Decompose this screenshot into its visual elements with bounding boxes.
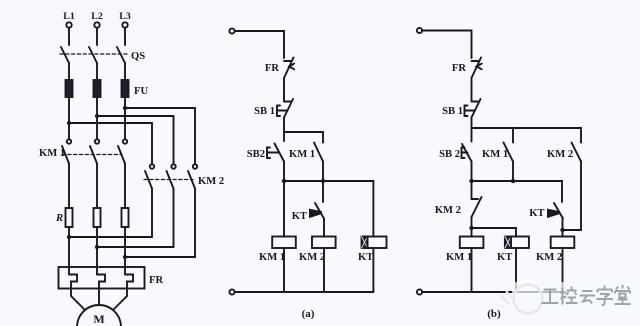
bypass row to phase3 xyxy=(125,256,195,258)
svg-text:KM 1: KM 1 xyxy=(289,149,315,160)
wire KM2 coil to rail (a) xyxy=(323,248,325,292)
svg-text:KT: KT xyxy=(358,252,373,263)
char 堂 xyxy=(615,285,631,304)
wire branch KM1 aux (b) xyxy=(512,128,514,143)
KM1 linkage dashed line xyxy=(62,154,122,156)
svg-text:KM 1: KM 1 xyxy=(482,149,508,160)
watermark logo xyxy=(501,285,543,314)
coil KT with delay element (a) xyxy=(362,237,387,249)
svg-text:KM 1: KM 1 xyxy=(446,252,472,263)
pushbutton SB1 NC (b) xyxy=(465,99,481,118)
KM2 linkage dashed line xyxy=(144,179,193,181)
branch wire to KM1 aux (a) xyxy=(284,132,323,143)
wire KM2 pole2 bypass down xyxy=(173,189,175,248)
wire FR to motor middle xyxy=(98,288,100,305)
branch row L2 to KM2 middle pole xyxy=(97,116,174,164)
wire KT contact down (b) xyxy=(562,219,564,237)
svg-text:KM 1: KM 1 xyxy=(39,148,65,159)
junction dot (b) node C xyxy=(469,226,473,230)
wire FR to SB1 (a) xyxy=(283,78,285,101)
wire L2 to QS xyxy=(96,28,98,45)
switch QS pole 3 blade xyxy=(117,47,125,63)
wire L1 to QS xyxy=(68,28,70,45)
svg-text:L1: L1 xyxy=(63,11,75,22)
junction dot xyxy=(123,255,127,259)
wire SB2 down to coil (a) xyxy=(283,162,285,237)
junction dot xyxy=(95,114,99,118)
wire KM2 aux down (b) xyxy=(563,162,582,231)
wire SB2 down (b) xyxy=(471,162,473,200)
FR NC contact (b) xyxy=(472,58,482,79)
time contact KT NO delayed (a) xyxy=(310,203,325,219)
svg-text:KM 2: KM 2 xyxy=(547,149,573,160)
svg-text:SB 1: SB 1 xyxy=(254,106,275,117)
junction dot xyxy=(67,235,71,239)
svg-text:FU: FU xyxy=(134,86,148,97)
coil KT with delay element (b) xyxy=(505,237,529,249)
terminal L3 xyxy=(122,22,127,27)
junction dot (b) main xyxy=(469,179,473,183)
char 工 xyxy=(542,290,559,304)
resistor R3 xyxy=(122,208,129,227)
svg-text:KT: KT xyxy=(497,252,512,263)
bypass row to phase2 xyxy=(97,246,174,248)
contactor KM1 pole3 terminal xyxy=(123,139,127,143)
wire QS to FU pole2 xyxy=(96,63,98,80)
pushbutton SB2 NO (a) xyxy=(267,144,284,162)
svg-text:L2: L2 xyxy=(91,11,103,22)
wire KM2 pole3 bypass down xyxy=(194,189,196,258)
node terminal top (a) xyxy=(229,28,234,33)
wire R1 to FR heater1 xyxy=(68,227,70,275)
junction dot xyxy=(95,245,99,249)
wire R3 to FR heater3 xyxy=(124,227,126,275)
fuse FU 1 xyxy=(66,80,73,97)
svg-text:KM 2: KM 2 xyxy=(435,205,461,216)
wire KM1 aux down (b) xyxy=(512,162,514,182)
wire KT coil to rail (a) xyxy=(372,248,374,292)
junction dot (b) xyxy=(511,179,515,183)
bypass row to phase1 xyxy=(69,236,152,238)
junction dot xyxy=(67,121,71,125)
svg-text:R: R xyxy=(55,213,63,224)
contact KM2 NC interlock (b) xyxy=(472,197,482,217)
svg-text:SB 1: SB 1 xyxy=(442,106,463,117)
contactor KM1 pole2 blade xyxy=(90,146,97,164)
wire SB1 down (a) xyxy=(283,118,285,142)
wire QS to FU pole1 xyxy=(68,63,70,80)
wire KM1 pole1 to R1 xyxy=(68,164,70,209)
motor M xyxy=(77,305,121,326)
bottom terminal (b) xyxy=(417,289,422,294)
contactor KM2 pole3 terminal xyxy=(193,164,197,168)
bottom terminal (a) xyxy=(229,289,234,294)
contactor KM2 pole1 blade xyxy=(145,171,152,189)
svg-text:M: M xyxy=(93,312,104,326)
svg-text:(a): (a) xyxy=(302,308,315,320)
wire L3 to QS xyxy=(124,28,126,45)
wire FU1 to KM1 xyxy=(68,97,70,139)
char 云 xyxy=(580,291,596,304)
wire node to KT coil (a) xyxy=(372,181,374,237)
junction dot xyxy=(123,106,127,110)
char 控 xyxy=(560,287,578,305)
coil KM1 (a) xyxy=(272,237,296,249)
bottom rail (a) xyxy=(235,291,374,293)
coil KM2 (b) xyxy=(551,237,575,249)
watermark text 工控云字堂 xyxy=(542,285,631,305)
watermark emboss backdrop xyxy=(512,282,640,310)
pushbutton SB2 NO (b) xyxy=(462,144,472,162)
wire KM1 aux down (a) xyxy=(322,162,324,182)
fuse FU 2 xyxy=(94,80,101,97)
svg-text:(b): (b) xyxy=(487,308,501,320)
contact KM1 NO aux (a) xyxy=(314,143,323,162)
time contact KT NO delayed (b) xyxy=(548,203,564,219)
QS linkage dashed line xyxy=(60,53,128,55)
wire KM1 coil to rail (a) xyxy=(283,248,285,292)
wire FU3 to KM1 xyxy=(124,97,126,139)
FR heater element 1 xyxy=(69,275,77,289)
switch QS pole 1 blade xyxy=(61,47,69,63)
wire KM2 coil to rail (b) xyxy=(562,248,564,292)
wire KT coil to rail (b) xyxy=(515,248,517,292)
wire KM1 pole2 to R2 xyxy=(96,164,98,209)
branch row L1 to KM2 left pole xyxy=(69,123,152,164)
wire FU2 to KM1 xyxy=(96,97,98,139)
wire KM1 coil to rail (b) xyxy=(471,248,473,292)
svg-text:FR: FR xyxy=(452,63,466,74)
fuse FU 3 xyxy=(122,80,129,97)
branch rail to KM1 and KM2 aux (b) xyxy=(472,128,582,143)
wire SB1 down (b) xyxy=(471,118,473,142)
terminal L1 xyxy=(66,22,71,27)
svg-text:KM 1: KM 1 xyxy=(259,252,285,263)
svg-text:KM 2: KM 2 xyxy=(198,176,224,187)
svg-text:SB2: SB2 xyxy=(247,149,265,160)
char 字 xyxy=(597,286,614,306)
node terminal top (b) xyxy=(417,28,422,33)
wire R2 to FR heater2 xyxy=(96,227,98,275)
resistor R2 xyxy=(94,208,101,227)
contactor KM2 pole2 terminal xyxy=(171,164,175,168)
resistor R1 xyxy=(66,208,73,227)
contactor KM1 pole1 blade xyxy=(62,146,69,164)
junction dot (a) main xyxy=(282,179,286,183)
wire top rail (b) xyxy=(422,31,471,59)
node rail C to KT coil (b) xyxy=(472,228,517,237)
svg-text:KT: KT xyxy=(292,211,307,222)
branch row L3 to KM2 right pole xyxy=(125,108,195,164)
switch QS pole 2 blade xyxy=(89,47,97,63)
contactor KM1 pole3 blade xyxy=(118,146,125,164)
FR heater element 3 xyxy=(125,275,133,289)
junction dot node B (b) xyxy=(560,228,564,232)
node rail N1 (b) xyxy=(472,181,563,202)
wire node to KT contact (a) xyxy=(322,181,324,202)
wire KM2 NC to KM1 coil (b) xyxy=(471,217,473,237)
junction dot (a) xyxy=(321,179,325,183)
contactor KM2 pole3 blade xyxy=(188,171,195,189)
node rail (a) xyxy=(284,180,373,182)
wire top rail (a) xyxy=(235,31,284,58)
pushbutton SB1 NC (a) xyxy=(277,99,293,118)
svg-text:FR: FR xyxy=(265,63,279,74)
wire KT contact to KM2 coil (a) xyxy=(323,219,325,237)
terminal L2 xyxy=(94,22,99,27)
svg-text:KM 2: KM 2 xyxy=(299,252,325,263)
svg-text:FR: FR xyxy=(149,275,163,286)
svg-text:QS: QS xyxy=(131,51,145,62)
svg-text:KT: KT xyxy=(529,208,544,219)
contactor KM1 pole2 terminal xyxy=(95,139,99,143)
wire QS to FU pole3 xyxy=(124,63,126,80)
contactor KM1 pole1 terminal xyxy=(67,139,71,143)
contactor KM2 pole2 blade xyxy=(167,171,174,189)
wire KM2 pole1 bypass down xyxy=(151,189,153,238)
coil KM1 (b) xyxy=(460,237,484,249)
thermal relay FR box xyxy=(59,267,145,289)
wire FR to motor right xyxy=(114,288,127,309)
svg-text:KM 2: KM 2 xyxy=(536,252,562,263)
coil KM2 (a) xyxy=(312,237,336,249)
contact KM1 NO aux (b) xyxy=(504,143,514,162)
wire FR to SB1 (b) xyxy=(471,78,473,101)
contactor KM2 pole1 terminal xyxy=(150,164,154,168)
FR heater element 2 xyxy=(97,275,105,289)
svg-text:L3: L3 xyxy=(119,11,131,22)
FR NC contact (a) xyxy=(284,58,294,79)
wire KM1 pole3 to R3 xyxy=(124,164,126,209)
svg-text:SB 2: SB 2 xyxy=(439,149,460,160)
wire FR to motor left xyxy=(71,288,84,309)
bottom rail (b) xyxy=(422,291,562,293)
contact KM2 NO aux (b) xyxy=(572,143,582,162)
